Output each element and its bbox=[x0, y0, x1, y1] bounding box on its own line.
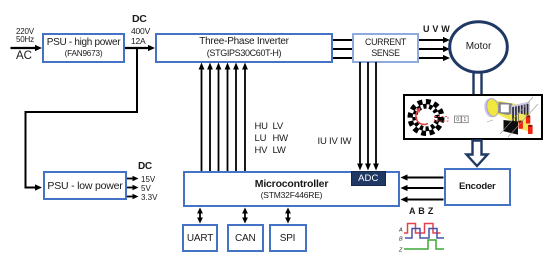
label AC bbox=[16, 50, 32, 62]
label IU IV IW bbox=[318, 136, 352, 147]
SPI box bbox=[269, 224, 307, 252]
Encoder box bbox=[444, 168, 512, 207]
CAN box bbox=[227, 224, 265, 252]
Three-Phase Inverter (STGIPS30C60T-H) bbox=[155, 33, 333, 63]
label 3.3V bbox=[141, 193, 157, 202]
PSU low power box bbox=[43, 171, 127, 200]
label gate signals HU LV / LU HW / HV LW bbox=[255, 121, 268, 157]
label DC (low voltage) bbox=[138, 161, 152, 172]
label 15V bbox=[141, 175, 155, 184]
label DC 400V 12A bbox=[132, 13, 147, 25]
encoder principle image frame bbox=[403, 94, 543, 140]
Microcontroller (STM32F446RE) bbox=[183, 171, 400, 207]
label A B Z bbox=[409, 206, 434, 216]
label U V W bbox=[423, 24, 450, 34]
label 5V bbox=[141, 184, 151, 193]
ADC block bbox=[351, 171, 386, 186]
PSU high power (FAN9673) bbox=[42, 33, 125, 63]
UART box bbox=[182, 224, 218, 252]
label 220V 50Hz bbox=[16, 28, 34, 45]
CURRENT SENSE box bbox=[352, 33, 419, 63]
